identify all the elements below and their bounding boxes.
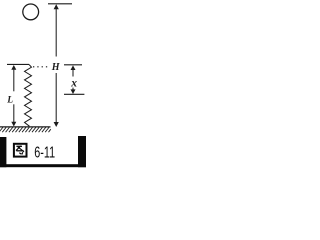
dimension L line lower <box>13 104 15 122</box>
ball <box>23 4 39 20</box>
ground line <box>0 126 51 128</box>
dimension H arrow down <box>54 122 59 127</box>
caption frame left bar <box>0 137 6 167</box>
dotted line from spring top to H label <box>33 66 50 68</box>
dimension x bottom line <box>64 93 84 95</box>
svg-text:6-11: 6-11 <box>34 145 55 162</box>
dimension L arrow down <box>11 122 16 127</box>
dimension H line lower <box>55 73 57 123</box>
冬 strokes inside <box>16 145 22 147</box>
dimension x upper tail <box>72 70 74 77</box>
ground hatching <box>0 127 51 132</box>
caption frame bottom bar <box>0 164 86 167</box>
svg-text:x: x <box>70 78 77 90</box>
dimension H arrow up <box>54 4 59 9</box>
svg-text:H: H <box>51 62 61 73</box>
svg-text:L: L <box>6 96 13 106</box>
dimension L line upper <box>13 69 15 91</box>
dimension x top line <box>64 64 82 66</box>
caption frame right bar <box>78 136 86 167</box>
spring top plate / L tick line <box>7 63 29 65</box>
dimension x arrow down <box>71 89 76 94</box>
background <box>0 0 87 169</box>
dimension H line upper <box>55 9 57 57</box>
dimension x arrow up <box>71 65 76 70</box>
dimension L arrow up <box>11 65 16 70</box>
top reference line <box>48 3 72 5</box>
spring <box>25 65 32 127</box>
dimension x lower tail <box>72 88 74 91</box>
caption 图 character box <box>14 144 27 157</box>
